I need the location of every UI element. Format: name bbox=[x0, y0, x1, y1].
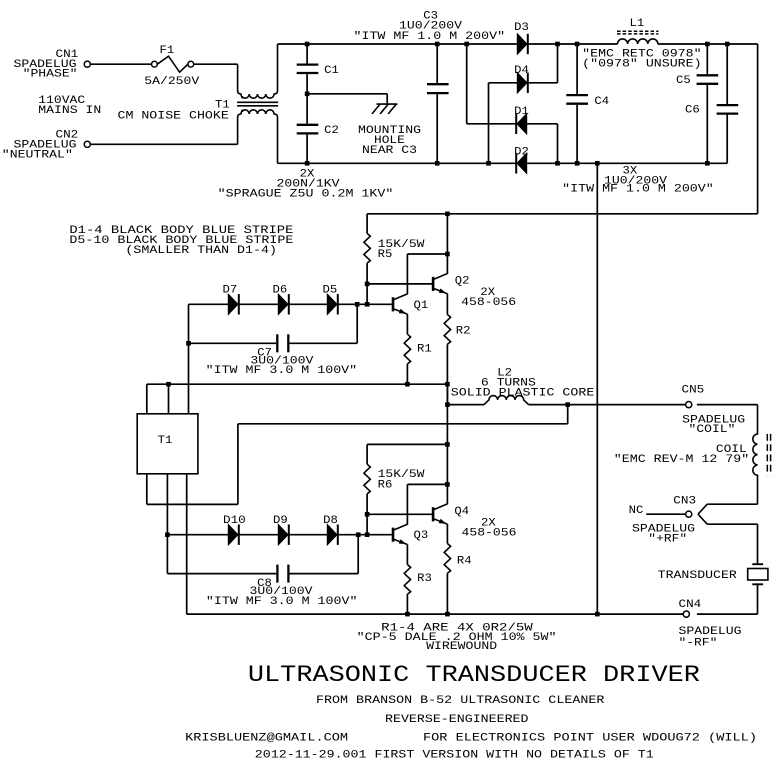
svg-text:"ITW MF 3.0 M 100V": "ITW MF 3.0 M 100V" bbox=[206, 596, 358, 608]
wire L2 left lead bbox=[447, 404, 484, 406]
wire bottom return rail bbox=[187, 613, 684, 615]
choke phase dot bottom bbox=[241, 109, 244, 112]
inductor L1 core dashes bbox=[617, 30, 658, 32]
wire L2 return run bbox=[238, 423, 568, 425]
transistor Q1 symbol bbox=[392, 297, 395, 311]
svg-text:"COIL": "COIL" bbox=[689, 424, 736, 436]
svg-text:R2: R2 bbox=[456, 325, 471, 337]
wire C6 top lead bbox=[726, 44, 728, 104]
fuse F1 bbox=[152, 61, 158, 67]
junction C5-C6/bottom rail bbox=[705, 161, 710, 166]
wire CN3 lower throw to transducer bbox=[707, 523, 757, 525]
wire C7 to base row bbox=[356, 304, 358, 343]
wire D4 anode drop bbox=[488, 83, 490, 164]
junction C2/bottom rail bbox=[305, 161, 310, 166]
wire right edge drop bbox=[757, 44, 759, 214]
wire top rail left of L1 bbox=[278, 43, 618, 45]
junction C1-C2 midpoint bbox=[305, 92, 310, 97]
svg-text:C6: C6 bbox=[685, 105, 700, 117]
wire C7 left lead bbox=[189, 342, 277, 344]
wire T1 bottom pin 2 bbox=[166, 474, 168, 535]
junction C1/top rail bbox=[305, 42, 310, 47]
wire Q1 collector riser bbox=[406, 254, 408, 294]
wire collector supply rail bbox=[367, 213, 757, 215]
wire emitter return rail bbox=[147, 383, 448, 385]
mounting hole chassis ground symbol bbox=[377, 103, 398, 105]
diode D6 bbox=[278, 294, 288, 314]
wire Q4 collector riser bbox=[446, 484, 448, 504]
svg-text:D4: D4 bbox=[514, 65, 529, 77]
wire transducer bottom lead bbox=[757, 585, 759, 614]
wire T1 bottom pin 1 bbox=[146, 474, 148, 505]
junction L2 output node bbox=[565, 402, 570, 407]
transformer T1 CM noise choke bottom winding bbox=[238, 110, 278, 163]
wire R1 bottom lead bbox=[406, 364, 408, 384]
wire Q3 collector riser bbox=[406, 484, 408, 524]
transformer T1 box bbox=[137, 414, 198, 474]
junction C7/Q1 base bbox=[355, 302, 360, 307]
wire R5 node to Q1 base row bbox=[366, 284, 368, 304]
resistor R6 15K/5W bbox=[364, 464, 370, 494]
svg-text:D1: D1 bbox=[514, 106, 529, 118]
wire NC stub bbox=[646, 513, 686, 515]
svg-text:"SPRAGUE Z5U 0.2M 1KV": "SPRAGUE Z5U 0.2M 1KV" bbox=[218, 189, 394, 201]
connector CN2 spadelug NEUTRAL terminal bbox=[84, 141, 90, 147]
wire C1 top lead bbox=[306, 44, 308, 64]
svg-text:5A/250V: 5A/250V bbox=[144, 76, 200, 88]
diode D9 bbox=[278, 525, 288, 545]
svg-text:Q3: Q3 bbox=[414, 530, 429, 542]
capacitor C4 bbox=[566, 94, 588, 96]
wire R1 top lead bbox=[406, 314, 408, 334]
CN3 lower throw diagonal bbox=[698, 514, 707, 524]
svg-text:D6: D6 bbox=[273, 284, 288, 296]
wire C5 top lead bbox=[706, 44, 708, 74]
junction Q3-Q4 collectors bbox=[445, 482, 450, 487]
wire R3 top lead bbox=[406, 545, 408, 565]
svg-text:R1: R1 bbox=[417, 343, 432, 355]
wire transducer top lead bbox=[757, 524, 759, 563]
junction R6/Q4 base bbox=[365, 512, 370, 517]
wire center column drop bbox=[596, 163, 598, 614]
svg-text:458-056: 458-056 bbox=[461, 297, 516, 309]
junction C6/top rail bbox=[725, 42, 730, 47]
junction R1/rail bbox=[405, 382, 410, 387]
svg-text:D8: D8 bbox=[323, 515, 338, 527]
resistor R4 bbox=[444, 544, 450, 574]
transistor Q2 symbol bbox=[432, 277, 435, 291]
capacitor C1 bbox=[297, 63, 319, 65]
wire coil to CN3 upper throw bbox=[707, 503, 757, 505]
wire Q2 collector riser bbox=[446, 214, 448, 274]
wire D4 row bbox=[489, 82, 558, 84]
junction C4/top rail bbox=[575, 42, 580, 47]
coil core dashes bbox=[766, 434, 768, 475]
svg-text:R3: R3 bbox=[417, 573, 432, 585]
diode D8 bbox=[327, 525, 337, 545]
junction R4/bottom return bbox=[445, 612, 450, 617]
svg-text:R6: R6 bbox=[378, 480, 393, 492]
wire CN1 to fuse bbox=[90, 63, 151, 65]
svg-text:"ITW MF 1.0 M 200V": "ITW MF 1.0 M 200V" bbox=[354, 31, 506, 43]
svg-text:D7: D7 bbox=[223, 284, 238, 296]
junction R3/bottom return bbox=[405, 612, 410, 617]
svg-text:FROM BRANSON B-52 ULTRASONIC C: FROM BRANSON B-52 ULTRASONIC CLEANER bbox=[316, 695, 605, 707]
svg-text:("0978" UNSURE): ("0978" UNSURE) bbox=[582, 59, 701, 71]
svg-text:SOLID PLASTIC CORE: SOLID PLASTIC CORE bbox=[451, 387, 595, 399]
svg-text:WIREWOUND: WIREWOUND bbox=[426, 641, 497, 653]
wire D1 row bbox=[467, 123, 558, 125]
inductor L1 bbox=[618, 39, 658, 44]
svg-text:REVERSE-ENGINEERED: REVERSE-ENGINEERED bbox=[385, 714, 529, 726]
junction D4/top rail bbox=[555, 42, 560, 47]
junction collector rail bbox=[445, 212, 450, 217]
resistor R5 15K/5W bbox=[364, 233, 370, 263]
svg-text:D3: D3 bbox=[514, 22, 529, 34]
svg-text:"EMC REV-M 12 79": "EMC REV-M 12 79" bbox=[614, 454, 749, 466]
junction R2/rail bbox=[445, 382, 450, 387]
diode D2 bbox=[517, 153, 527, 173]
wire Q4 base bbox=[367, 513, 432, 515]
wire bottom rail bbox=[278, 162, 708, 164]
svg-text:458-056: 458-056 bbox=[462, 527, 517, 539]
wire top rail right of L1 bbox=[658, 43, 758, 45]
capacitor C2 bbox=[297, 124, 319, 126]
svg-text:C2: C2 bbox=[324, 125, 339, 137]
transistor Q3 symbol bbox=[392, 528, 395, 542]
wire R4 top lead bbox=[446, 524, 448, 543]
wire R3 bottom lead bbox=[406, 594, 408, 614]
wire D1 cathode drop bbox=[466, 44, 468, 124]
wire R6 top lead bbox=[366, 444, 368, 464]
capacitor C5 bbox=[697, 74, 719, 76]
wire CN5 to coil bbox=[697, 404, 758, 406]
connector CN5 spadelug COIL terminal bbox=[686, 402, 692, 408]
wire T1 pin1 run bbox=[147, 503, 238, 505]
svg-text:C5: C5 bbox=[676, 75, 691, 87]
wire Q2 base bbox=[367, 283, 432, 285]
wire C1-C2 link bbox=[306, 74, 308, 124]
svg-text:NEAR C3: NEAR C3 bbox=[362, 145, 417, 157]
junction Q1-Q2 collectors bbox=[445, 252, 450, 257]
wire R6 bottom lead bbox=[366, 494, 368, 514]
svg-text:FOR ELECTRONICS POINT USER WDO: FOR ELECTRONICS POINT USER WDOUG72 (WILL… bbox=[423, 733, 757, 745]
svg-text:Q2: Q2 bbox=[455, 276, 470, 288]
junction R5/Q2 base bbox=[365, 282, 370, 287]
junction D1/top rail bbox=[464, 42, 469, 47]
wire C3 bottom lead bbox=[436, 94, 438, 163]
wire Q3 base / diode row bbox=[167, 534, 392, 536]
svg-text:"ITW MF 3.0 M 100V": "ITW MF 3.0 M 100V" bbox=[206, 365, 358, 377]
diode D3 bbox=[517, 34, 527, 54]
wire riser to L2 return bbox=[237, 424, 239, 505]
wire T1 top pin 1 bbox=[146, 384, 148, 414]
resistor R1 bbox=[404, 334, 410, 364]
transistor Q4 symbol bbox=[432, 507, 435, 521]
svg-text:C1: C1 bbox=[324, 65, 339, 77]
svg-text:"ITW MF 1.0 M 200V": "ITW MF 1.0 M 200V" bbox=[562, 184, 714, 196]
wire C3 top lead bbox=[436, 44, 438, 83]
resistor R3 bbox=[404, 565, 410, 595]
junction L2 input node bbox=[445, 402, 450, 407]
wire C6 bottom lead bbox=[726, 115, 728, 164]
connector CN3 spadelug +RF terminal bbox=[686, 511, 692, 517]
svg-text:R4: R4 bbox=[457, 555, 472, 567]
wire D7 anode drop to T1 bbox=[188, 304, 190, 414]
junction D4/bottom rail bbox=[486, 161, 491, 166]
svg-text:Q1: Q1 bbox=[414, 300, 429, 312]
wire D1 anode drop bbox=[557, 124, 559, 164]
svg-text:"+RF": "+RF" bbox=[648, 533, 687, 545]
svg-text:C4: C4 bbox=[594, 96, 609, 108]
wire C5 bottom lead bbox=[706, 85, 708, 164]
junction drop/bottom return bbox=[595, 612, 600, 617]
junction C4/bottom rail bbox=[575, 161, 580, 166]
svg-text:CN3: CN3 bbox=[673, 496, 696, 508]
wire C7 right lead bbox=[289, 342, 357, 344]
capacitor C7 bbox=[276, 334, 278, 352]
junction C3/bottom rail bbox=[435, 161, 440, 166]
wire Q1-Q2 collector tie bbox=[407, 253, 447, 255]
transformer T1 CM noise choke top winding bbox=[238, 44, 278, 98]
wire CN2 to choke bbox=[90, 143, 237, 145]
svg-text:T1: T1 bbox=[158, 435, 173, 447]
CN3 upper throw diagonal bbox=[698, 504, 707, 514]
diode D4 bbox=[517, 73, 527, 93]
diode D10 bbox=[228, 525, 238, 545]
junction drop/bottom rail bbox=[595, 161, 600, 166]
choke phase dot top bbox=[241, 96, 244, 99]
transducer symbol bbox=[752, 563, 763, 565]
diode D1 bbox=[517, 114, 527, 134]
svg-text:ULTRASONIC TRANSDUCER DRIVER: ULTRASONIC TRANSDUCER DRIVER bbox=[248, 662, 700, 688]
wire Q3-Q4 collector tie bbox=[407, 483, 447, 485]
coil EMC REV-M winding bbox=[753, 405, 758, 505]
junction R6 feed bbox=[445, 442, 450, 447]
connector CN1 spadelug PHASE terminal bbox=[84, 61, 90, 67]
svg-text:Q4: Q4 bbox=[454, 506, 469, 518]
wire fuse to choke bbox=[194, 63, 238, 65]
wire R2 top lead bbox=[446, 294, 448, 315]
wire CN4 right bbox=[697, 613, 758, 615]
wire center column bbox=[446, 384, 448, 404]
wire C2 bottom lead bbox=[306, 134, 308, 163]
wire C8 left lead bbox=[167, 573, 276, 575]
wire C8 right lead bbox=[290, 573, 359, 575]
resistor R2 bbox=[444, 315, 450, 345]
svg-text:D10: D10 bbox=[223, 515, 246, 527]
wire center column Q2 emitter to Q4 collector bbox=[446, 344, 448, 484]
svg-text:TRANSDUCER: TRANSDUCER bbox=[658, 570, 738, 582]
wire bottom rail jog to C6 bbox=[707, 162, 727, 164]
svg-text:MAINS IN: MAINS IN bbox=[38, 105, 101, 117]
connector CN4 spadelug -RF terminal bbox=[683, 611, 689, 617]
capacitor C3 bbox=[427, 83, 449, 85]
wire D4 cathode riser bbox=[557, 44, 559, 83]
junction C8/Q3 base bbox=[356, 532, 361, 537]
svg-text:(SMALLER THAN D1-4): (SMALLER THAN D1-4) bbox=[125, 245, 277, 257]
junction C5/top rail bbox=[705, 42, 710, 47]
svg-text:R5: R5 bbox=[378, 249, 393, 261]
wire T1 top pin 2 bbox=[168, 384, 170, 414]
svg-text:"NEUTRAL": "NEUTRAL" bbox=[2, 150, 73, 162]
svg-text:CN4: CN4 bbox=[679, 599, 702, 611]
junction T1 pin2/rail bbox=[166, 382, 171, 387]
wire to mounting hole bbox=[307, 93, 387, 95]
wire C4 top lead bbox=[576, 44, 578, 94]
svg-text:NC: NC bbox=[629, 505, 644, 517]
junction C7 left node bbox=[186, 341, 191, 346]
capacitor C6 bbox=[717, 104, 739, 106]
wire R5 bottom lead bbox=[366, 263, 368, 284]
wire C8 left riser bbox=[166, 535, 168, 574]
wire R6 node to Q3 base row bbox=[366, 514, 368, 534]
junction R5/Q1 base bbox=[365, 302, 370, 307]
wire L2 return riser bbox=[567, 405, 569, 424]
transformer T1 core lines bbox=[237, 101, 278, 103]
svg-text:KRISBLUENZ@GMAIL.COM: KRISBLUENZ@GMAIL.COM bbox=[185, 733, 348, 745]
svg-text:CN5: CN5 bbox=[682, 385, 705, 397]
svg-text:D2: D2 bbox=[514, 146, 529, 158]
capacitor C8 bbox=[276, 565, 278, 583]
wire R4 bottom lead bbox=[446, 573, 448, 614]
svg-text:CM NOISE CHOKE: CM NOISE CHOKE bbox=[118, 111, 229, 123]
wire R5 top lead bbox=[366, 214, 368, 234]
svg-text:2012-11-29.001 FIRST VERSION: 2012-11-29.001 FIRST VERSION WITH NO DET… bbox=[255, 749, 654, 761]
svg-text:L1: L1 bbox=[630, 18, 645, 30]
inductor L2 6 turns bbox=[484, 396, 528, 405]
wire mounting hole lead bbox=[386, 94, 388, 104]
svg-text:"PHASE": "PHASE" bbox=[23, 68, 78, 80]
wire L2 to CN5 bbox=[529, 404, 686, 406]
junction T1/D10/C8 bbox=[165, 532, 170, 537]
junction C3/top rail bbox=[435, 42, 440, 47]
svg-text:"-RF": "-RF" bbox=[679, 637, 718, 649]
wire R6 top feed bbox=[367, 443, 447, 445]
junction R6/Q3 base bbox=[365, 532, 370, 537]
wire Q1 base / diode row bbox=[189, 303, 393, 305]
svg-text:F1: F1 bbox=[160, 45, 175, 57]
diode D7 bbox=[228, 294, 238, 314]
svg-text:D9: D9 bbox=[273, 515, 288, 527]
wire C4 bottom lead bbox=[576, 105, 578, 164]
wire C8 to base row bbox=[357, 535, 359, 574]
wire T1 bottom pin 3 bbox=[186, 474, 188, 614]
svg-text:D5: D5 bbox=[323, 284, 338, 296]
junction D1/bottom rail bbox=[555, 161, 560, 166]
diode D5 bbox=[327, 294, 337, 314]
